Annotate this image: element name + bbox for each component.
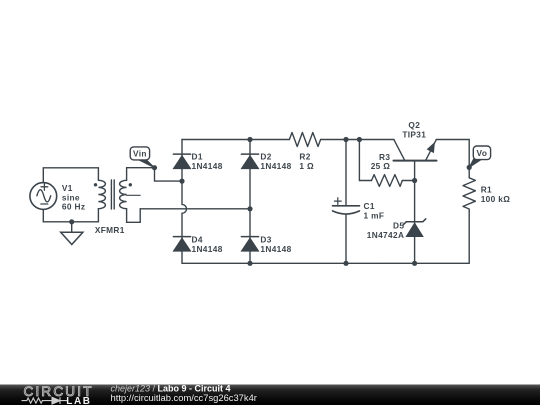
transformer XFMR1 secondary winding [120,180,127,208]
transistor Q2 [394,140,437,181]
wire V1 top to transformer primary [43,168,98,183]
transformer XFMR1 phase dot primary [94,183,97,186]
wire Vin node down to bridge left input [155,168,183,181]
diode D3 [241,237,258,252]
node bottom rail D5 junction [412,261,417,266]
wire R3 to base node [402,180,414,182]
zener diode D5 [403,219,425,237]
svg-text:LAB: LAB [66,396,91,405]
transformer XFMR1 secondary center tap stub [127,194,141,196]
svg-text:60 Hz: 60 Hz [62,202,85,212]
svg-text:1N4148: 1N4148 [260,244,291,254]
node bridge left input junction [179,179,184,184]
svg-text:1N4148: 1N4148 [192,161,223,171]
node Vo junction [467,165,472,170]
transformer XFMR1 core [111,180,114,209]
svg-text:Vo: Vo [477,148,488,158]
resistor R3 [372,175,403,187]
node ground junction [69,219,74,224]
svg-text:25 Ω: 25 Ω [371,161,391,171]
svg-text:1N4148: 1N4148 [260,161,291,171]
wire R3 branch from top rail [359,140,371,181]
wire left bridge column with hop over [182,140,187,264]
node top rail D2 junction [247,137,252,142]
logo wire resistor and diode [22,397,68,404]
node bottom rail C1 junction [343,261,348,266]
footer bar [0,385,540,405]
node bridge right input junction [247,206,252,211]
wire V1 bottom to transformer primary [43,209,98,222]
node Vin junction [152,165,157,170]
svg-text:100 kΩ: 100 kΩ [481,194,511,204]
wire base node down to zener D5 [414,181,416,264]
resistor R2 [289,133,320,147]
wire top rail R2 to transistor collector [321,139,394,141]
wire secondary bottom to bridge right input [140,208,250,210]
svg-text:XFMR1: XFMR1 [95,225,125,235]
node top rail C1 junction [343,137,348,142]
diode D1 [173,154,190,169]
svg-text:TIP31: TIP31 [402,129,426,139]
wire right bridge column [249,140,251,264]
flag Vin [130,147,154,168]
svg-text:http://circuitlab.com/cc7sg26c: http://circuitlab.com/cc7sg26c37k4r [111,392,257,403]
wire emitter to Vo corner [436,140,469,178]
transformer XFMR1 primary winding [98,180,105,208]
diode D4 [173,237,190,252]
transformer XFMR1 phase dot secondary [129,183,132,186]
capacitor C1 [333,140,360,264]
wire secondary top to Vin node [127,168,155,181]
resistor R1 [463,178,475,211]
svg-text:1N4148: 1N4148 [192,244,223,254]
diode D2 [241,154,258,169]
svg-text:Vin: Vin [133,148,147,158]
ground [61,222,83,245]
flag Vo [469,146,490,167]
node top rail R3 junction [357,137,362,142]
svg-text:1N4742A: 1N4742A [367,230,405,240]
wire top rail bridge to R2 [182,139,289,141]
wire R1 to bottom rail [468,211,470,263]
node bottom rail D3 junction [247,261,252,266]
wire secondary bottom jog [127,209,141,223]
wire bottom rail [182,262,469,264]
svg-text:1 mF: 1 mF [364,211,385,221]
node base-R3-D5 junction [412,178,417,183]
svg-text:1 Ω: 1 Ω [299,161,314,171]
voltage source V1 [30,183,57,210]
